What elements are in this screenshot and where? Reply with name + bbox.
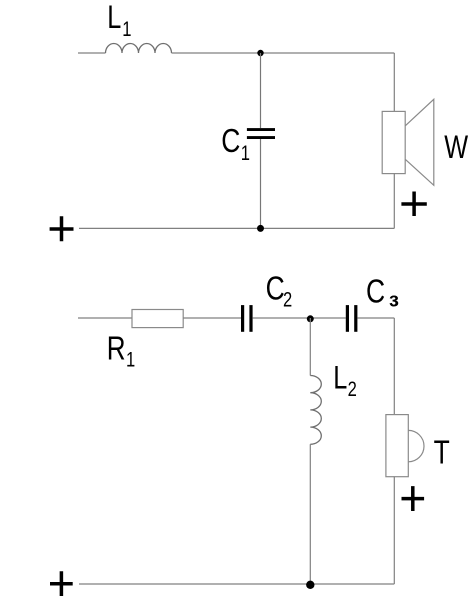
wire: C1 upper lead xyxy=(260,53,262,128)
plus terminal (tweeter) xyxy=(402,486,425,511)
wire: L2 upper lead xyxy=(309,318,311,376)
wire: top rail right of L1 xyxy=(172,52,395,54)
plus terminal (woofer) xyxy=(401,192,426,217)
svg-text:T: T xyxy=(434,434,450,471)
node: junction bottom of L2 xyxy=(306,581,314,589)
svg-text:L: L xyxy=(333,361,347,397)
wire: tweeter lower lead xyxy=(393,477,395,584)
svg-text:2: 2 xyxy=(348,378,357,401)
speaker W cone xyxy=(405,99,433,185)
svg-text:L: L xyxy=(107,0,121,36)
speaker W body xyxy=(382,111,405,173)
svg-text:1: 1 xyxy=(122,18,131,41)
node: junction top of C1 xyxy=(257,50,263,56)
wire: right drop to tweeter xyxy=(393,318,395,415)
svg-text:1: 1 xyxy=(241,142,250,165)
wire: woofer lower lead xyxy=(393,174,395,229)
svg-text:1: 1 xyxy=(126,349,135,372)
svg-text:2: 2 xyxy=(283,289,292,312)
node: junction bottom of C1 xyxy=(257,225,264,232)
node: junction at L2 tap xyxy=(307,315,314,322)
svg-text:C: C xyxy=(266,271,285,308)
svg-text:W: W xyxy=(444,130,469,166)
wire: bottom rail of bottom circuit xyxy=(79,583,394,585)
wire: L2 lower lead xyxy=(309,444,311,584)
capacitor C2 xyxy=(241,305,244,332)
wire: C1 lower lead xyxy=(260,139,262,228)
wire: R1 to C2 xyxy=(183,317,241,319)
tweeter T dome xyxy=(408,430,424,461)
inductor L1 xyxy=(106,44,172,54)
plus terminal (bottom circuit left) xyxy=(50,571,73,596)
wire: C3 to right corner xyxy=(357,317,394,319)
plus terminal (top circuit left) xyxy=(50,216,74,241)
wire: right drop to woofer xyxy=(393,53,395,111)
svg-text:C: C xyxy=(366,274,385,311)
resistor R1 xyxy=(132,310,183,328)
tweeter T body xyxy=(386,415,408,477)
wire: top rail left of L1 xyxy=(78,52,106,54)
capacitor C1 xyxy=(247,128,275,131)
svg-text:R: R xyxy=(107,331,126,368)
wire: bottom rail of top circuit xyxy=(79,227,394,229)
capacitor C3 xyxy=(346,305,349,332)
svg-text:C: C xyxy=(221,123,240,160)
wire: bottom circuit top rail left of R1 xyxy=(78,317,132,319)
wire: C2 to C3 xyxy=(253,317,346,319)
svg-text:з: з xyxy=(389,289,399,311)
inductor L2 xyxy=(310,376,321,445)
